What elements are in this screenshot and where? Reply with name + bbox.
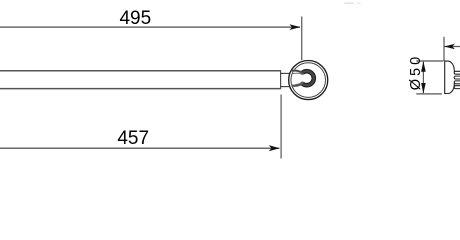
dimension line 457 [0, 147, 279, 149]
thread ridge 3 [454, 81, 460, 84]
neck bottom edge [281, 86, 290, 88]
thread ridge 4 [454, 86, 460, 89]
dia-50 bottom extension line [416, 93, 442, 95]
dia-50 top extension line [416, 60, 443, 62]
extension line right of 495 [301, 17, 303, 61]
rail bottom edge [0, 88, 281, 90]
socket jaw top fuzz [293, 71, 301, 72]
flange outer circle [289, 61, 328, 100]
arrowhead dia-50 up [421, 61, 426, 71]
flange side profile outline [445, 61, 455, 93]
socket C-ring fuzz [302, 71, 314, 85]
dia-50 dimension line [422, 62, 424, 94]
side-view projection dimension line [444, 46, 460, 48]
svg-text:457: 457 [117, 128, 149, 149]
socket jaw bottom [293, 84, 301, 85]
rail top edge [0, 70, 281, 72]
thread ridge 2 [454, 76, 460, 79]
socket jaw bottom inner lip [294, 82, 304, 85]
socket C-ring outer edge [301, 70, 316, 87]
socket jaw bottom fuzz [293, 84, 301, 85]
side-view wall extension line [443, 37, 445, 61]
socket C-ring inner edge [304, 73, 313, 84]
neck top edge [281, 72, 290, 74]
faint cropped-text smudge left [345, 2, 354, 4]
arrowhead dia-50 down [421, 83, 426, 94]
arrowhead 457 right [269, 145, 280, 151]
faint cropped-text smudge right [357, 3, 361, 4]
flange side profile [445, 61, 455, 93]
socket C-ring band [302, 71, 314, 85]
svg-text:Ø50: Ø50 [408, 54, 424, 91]
flange inner circle [291, 63, 326, 98]
socket jaw top inner lip [293, 72, 304, 75]
socket jaw top [293, 71, 301, 72]
arrowhead 495 right [289, 24, 300, 30]
svg-text:495: 495 [119, 8, 151, 29]
extension line right of 457 [280, 95, 282, 159]
arrowhead projection left [444, 44, 455, 50]
dimension line 495 [0, 26, 300, 28]
thread ridge 1 [454, 71, 460, 74]
rail end cap [280, 70, 282, 89]
